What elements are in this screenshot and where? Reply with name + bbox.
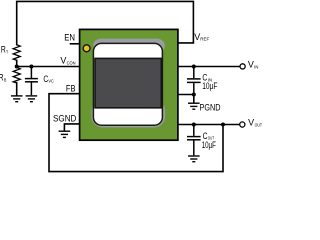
- ground (CVC): [26, 96, 38, 102]
- wire RT bottom to VCON node: [16, 60, 18, 66]
- wire RB bottom to ground: [16, 83, 18, 96]
- svg-text:FB: FB: [66, 83, 76, 93]
- chip silver lid bottom shadow: [92, 100, 166, 127]
- capacitor CVC: [25, 67, 38, 96]
- svg-text:EN: EN: [64, 33, 75, 43]
- svg-text:V: V: [60, 55, 66, 65]
- wire PGND: chip pin to CIN bottom and ground: [177, 95, 194, 103]
- svg-text:V: V: [248, 118, 254, 128]
- svg-text:SGND: SGND: [53, 113, 77, 123]
- pin 1 marker (yellow dot): [83, 45, 90, 52]
- capacitor CIN: [187, 67, 201, 95]
- wire SGND stub: [64, 124, 80, 131]
- svg-text:T: T: [6, 49, 8, 54]
- chip die (dark area): [95, 58, 161, 107]
- svg-text:REF: REF: [200, 37, 209, 42]
- chip U1 package (green substrate): [80, 29, 178, 140]
- terminal VOUT: [240, 122, 245, 127]
- chip body (white rounded rect): [93, 43, 162, 125]
- wire EN stub: [71, 43, 81, 45]
- junction node CVC tap: [29, 65, 33, 69]
- wire VREF feedback loop (chip right pin to top-left): [17, 1, 194, 44]
- svg-text:10µF: 10µF: [202, 81, 218, 91]
- chip silver lid top bevel: [93, 39, 165, 53]
- capacitor COUT: [187, 125, 201, 156]
- junction node CIN bottom: [192, 93, 196, 97]
- svg-text:PGND: PGND: [200, 102, 221, 112]
- ground (RB): [11, 96, 23, 102]
- wire FB feedback: chip pin via bottom loop to VOUT: [49, 94, 223, 172]
- resistor RT: [13, 45, 20, 61]
- junction node FB loop tap: [221, 123, 225, 127]
- svg-text:CON: CON: [67, 60, 76, 65]
- junction node CIN top: [192, 65, 196, 69]
- ground (PGND): [188, 103, 200, 109]
- svg-text:10µF: 10µF: [202, 140, 217, 150]
- wire VOUT: chip pin to terminal: [177, 124, 239, 126]
- wire VCON node to chip pin: [17, 66, 80, 68]
- svg-text:B: B: [4, 78, 7, 83]
- terminal VIN: [240, 64, 245, 69]
- svg-text:OUT: OUT: [255, 122, 263, 127]
- svg-text:IN: IN: [254, 65, 258, 70]
- svg-text:V: V: [248, 60, 254, 70]
- junction node COUT tap: [192, 123, 196, 127]
- junction node RT/RB/VCON: [15, 65, 19, 69]
- ground (SGND): [59, 131, 71, 137]
- svg-text:VC: VC: [48, 79, 54, 84]
- wire VIN: chip pin to terminal: [177, 66, 239, 68]
- ground (COUT): [188, 156, 200, 162]
- resistor RB: [13, 67, 20, 83]
